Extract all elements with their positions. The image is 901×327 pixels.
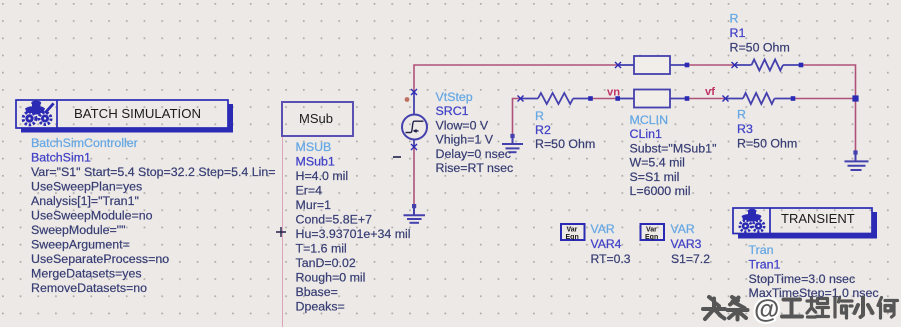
BATCH box icon separator bbox=[56, 100, 58, 128]
coupled line CLin1 (MCLIN) top conductor bbox=[618, 56, 687, 74]
svg-text:VAR: VAR bbox=[671, 222, 695, 236]
ground below SRC1 bbox=[404, 204, 426, 223]
svg-text:RT=0.3: RT=0.3 bbox=[591, 252, 631, 266]
junction square right rail node bbox=[852, 95, 858, 101]
svg-text:Hu=3.93701e+34 mil: Hu=3.93701e+34 mil bbox=[296, 227, 411, 241]
svg-text:StopTime=3.0 nsec: StopTime=3.0 nsec bbox=[749, 272, 856, 286]
junction square MCLIN pin2 bbox=[615, 96, 620, 101]
svg-text:H=4.0 mil: H=4.0 mil bbox=[296, 169, 349, 183]
svg-text:SweepModule="": SweepModule="" bbox=[31, 223, 126, 237]
VAR3 equation block icon bbox=[641, 224, 665, 241]
svg-text:vn: vn bbox=[607, 87, 620, 99]
svg-text:VAR: VAR bbox=[591, 222, 615, 236]
svg-text:SRC1: SRC1 bbox=[436, 104, 469, 118]
svg-text:MergeDatasets=yes: MergeDatasets=yes bbox=[31, 267, 142, 281]
glyph xiao bbox=[855, 298, 873, 318]
svg-text:Rough=0 mil: Rough=0 mil bbox=[296, 270, 366, 284]
svg-text:T=1.6 mil: T=1.6 mil bbox=[296, 241, 347, 255]
page boundary line (vertical pink) bbox=[282, 136, 284, 327]
svg-text:Dpeaks=: Dpeaks= bbox=[296, 299, 345, 313]
svg-text:R=50 Ohm: R=50 Ohm bbox=[535, 137, 595, 151]
glyph he bbox=[878, 298, 898, 319]
svg-text:RemoveDatasets=no: RemoveDatasets=no bbox=[31, 281, 147, 295]
ground at R2 left (middle rail) bbox=[502, 134, 523, 152]
svg-text:TRANSIENT: TRANSIENT bbox=[781, 211, 855, 226]
svg-text:R: R bbox=[730, 12, 739, 26]
svg-text:TanD=0.02: TanD=0.02 bbox=[296, 256, 356, 270]
glyph cheng bbox=[807, 298, 829, 318]
junction square MCLIN pin3 bbox=[685, 63, 690, 68]
resistor R2 bbox=[521, 93, 591, 104]
MCLIN pin1 x-mark bbox=[615, 62, 621, 68]
svg-text:Var="S1" Start=5.4 Stop=32.2 S: Var="S1" Start=5.4 Stop=32.2 Step=5.4 Li… bbox=[31, 165, 276, 179]
TRANSIENT box icon separator bbox=[769, 208, 771, 234]
svg-text:MCLIN: MCLIN bbox=[630, 113, 669, 127]
BATCH SIMULATION controller box shadow bbox=[21, 128, 233, 133]
svg-text:Tran: Tran bbox=[749, 243, 774, 257]
svg-text:Tran1: Tran1 bbox=[749, 257, 781, 271]
svg-text:@: @ bbox=[754, 294, 779, 324]
SRC1 pin x-mark top bbox=[411, 89, 417, 95]
BATCH gears icon bbox=[23, 101, 55, 125]
VAR4 equation block icon bbox=[561, 224, 585, 241]
svg-text:Delay=0 nsec: Delay=0 nsec bbox=[436, 147, 511, 161]
svg-text:MSub: MSub bbox=[299, 111, 333, 126]
wire: top rail MCLIN pin3 to R1 bbox=[687, 64, 734, 66]
svg-text:R: R bbox=[737, 108, 746, 122]
voltage source SRC1 (VtStep) bbox=[402, 91, 427, 148]
svg-text:L=6000 mil: L=6000 mil bbox=[630, 184, 691, 198]
svg-text:BatchSim1: BatchSim1 bbox=[31, 151, 91, 165]
svg-text:Vhigh=1 V: Vhigh=1 V bbox=[436, 133, 494, 147]
wire: node vf between MCLIN pin4 and R3 bbox=[687, 98, 726, 100]
svg-text:R3: R3 bbox=[737, 122, 753, 136]
svg-text:vf: vf bbox=[705, 86, 715, 98]
svg-text:UseSeparateProcess=no: UseSeparateProcess=no bbox=[31, 252, 169, 266]
svg-text:R1: R1 bbox=[730, 26, 746, 40]
svg-text:Vlow=0 V: Vlow=0 V bbox=[436, 118, 489, 132]
svg-text:MSUB: MSUB bbox=[296, 140, 332, 154]
junction square at R1 right pin bbox=[799, 63, 804, 68]
MSub substrate box bbox=[282, 102, 353, 136]
glyph gong bbox=[782, 300, 802, 317]
junction square MCLIN pin4 bbox=[685, 96, 690, 101]
resistor R3 bbox=[726, 93, 793, 104]
svg-text:Mur=1: Mur=1 bbox=[296, 198, 332, 212]
svg-text:S=S1 mil: S=S1 mil bbox=[630, 170, 680, 184]
svg-text:UseSweepModule=no: UseSweepModule=no bbox=[31, 209, 153, 223]
glyph tou bbox=[703, 297, 725, 319]
wire: R3 to right vertical rail bbox=[793, 98, 856, 100]
svg-text:Eqn: Eqn bbox=[566, 234, 579, 241]
svg-text:MSub1: MSub1 bbox=[296, 154, 335, 168]
TRANSIENT gears icon bbox=[740, 209, 764, 232]
junction square at R3 right pin bbox=[791, 96, 796, 101]
svg-text:R=50 Ohm: R=50 Ohm bbox=[730, 40, 790, 54]
SRC1 step waveform glyph bbox=[406, 121, 424, 132]
svg-text:S1=7.2: S1=7.2 bbox=[671, 252, 710, 266]
svg-text:R=50 Ohm: R=50 Ohm bbox=[737, 137, 797, 151]
BATCH SIMULATION controller box bbox=[16, 100, 228, 128]
svg-text:R2: R2 bbox=[535, 123, 551, 137]
svg-text:Subst="MSub1": Subst="MSub1" bbox=[630, 141, 717, 155]
wire: top rail from SRC1 to MCLIN pin1 bbox=[414, 65, 618, 91]
svg-text:R: R bbox=[535, 109, 544, 123]
R1 pin x-mark bbox=[732, 62, 738, 68]
SRC1 pin x-mark bottom bbox=[411, 144, 417, 150]
svg-text:VAR3: VAR3 bbox=[671, 237, 702, 251]
svg-text:UseSweepPlan=yes: UseSweepPlan=yes bbox=[31, 180, 142, 194]
svg-text:Rise=RT nsec: Rise=RT nsec bbox=[436, 161, 514, 175]
svg-text:Bbase=: Bbase= bbox=[296, 285, 338, 299]
junction square at R2 right pin bbox=[588, 96, 593, 101]
coupled line CLin1 (MCLIN) bottom conductor bbox=[618, 90, 687, 108]
watermark: toutiao @engineer xiaohe bbox=[703, 294, 898, 324]
TRANSIENT controller box bbox=[733, 208, 872, 234]
glyph tiao bbox=[728, 297, 748, 320]
svg-text:W=5.4 mil: W=5.4 mil bbox=[630, 156, 685, 170]
resistor R1 bbox=[734, 60, 802, 71]
svg-text:Cond=5.8E+7: Cond=5.8E+7 bbox=[296, 212, 373, 226]
wire: middle rail ground stub to R2 bbox=[513, 99, 522, 135]
svg-text:BATCH SIMULATION: BATCH SIMULATION bbox=[74, 106, 201, 121]
R2 pin x-mark bbox=[518, 96, 524, 102]
wire: SRC1 bottom to ground bbox=[413, 147, 415, 204]
svg-text:VtStep: VtStep bbox=[436, 90, 473, 104]
TRANSIENT controller box shadow bbox=[738, 234, 877, 239]
svg-text:SweepArgument=: SweepArgument= bbox=[31, 238, 130, 252]
svg-text:Var: Var bbox=[646, 227, 657, 234]
wire: top rail R1 to right corner, down to middle rail and ground bbox=[801, 65, 856, 151]
svg-text:Var: Var bbox=[567, 227, 578, 234]
svg-text:VAR4: VAR4 bbox=[591, 237, 622, 251]
ground at right rail bbox=[845, 150, 869, 170]
svg-text:Eqn: Eqn bbox=[645, 234, 658, 241]
wire: node vn between R2 and MCLIN pin2 bbox=[591, 98, 619, 100]
plus anchor marker bbox=[276, 227, 286, 237]
SRC1 plus-terminal red dot bbox=[405, 97, 410, 102]
svg-text:Analysis[1]="Tran1": Analysis[1]="Tran1" bbox=[31, 194, 139, 208]
svg-text:BatchSimController: BatchSimController bbox=[31, 136, 138, 150]
SRC1 minus sign bbox=[393, 156, 401, 158]
glyph shi bbox=[835, 298, 852, 319]
R3 pin x-mark bbox=[723, 96, 729, 102]
svg-text:Er=4: Er=4 bbox=[296, 183, 323, 197]
svg-text:CLin1: CLin1 bbox=[630, 127, 662, 141]
